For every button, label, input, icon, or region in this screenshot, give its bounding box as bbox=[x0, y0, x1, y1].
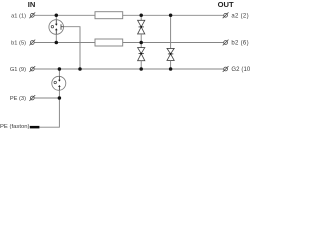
terminal b1 (5) bbox=[29, 40, 35, 46]
resistor R1 bbox=[95, 12, 123, 19]
junction PE/F2 bbox=[58, 96, 62, 100]
junction a-row/D3 bbox=[169, 14, 173, 17]
terminal a1 (1) bbox=[29, 12, 35, 18]
junction G/F1-side bbox=[78, 67, 82, 71]
svg-text:b2 (6): b2 (6) bbox=[231, 41, 248, 47]
junction b-row/D1-D2 bbox=[139, 41, 143, 45]
svg-text:G1 (9): G1 (9) bbox=[10, 67, 26, 73]
terminal b2 (6) bbox=[223, 40, 229, 46]
svg-text:PE (faston): PE (faston) bbox=[0, 124, 30, 130]
svg-text:a1 (1): a1 (1) bbox=[11, 13, 26, 19]
junction a-row/D1 bbox=[139, 14, 143, 17]
terminal PE (3) bbox=[29, 95, 35, 101]
terminal G2 (10) bbox=[223, 66, 229, 72]
wire G row bbox=[34, 68, 223, 70]
svg-text:OUT: OUT bbox=[218, 0, 234, 9]
terminal a2 (2) bbox=[223, 12, 229, 18]
resistor R2 bbox=[95, 39, 123, 46]
svg-text:G2 (10): G2 (10) bbox=[231, 67, 250, 73]
terminal G1 (9) bbox=[29, 66, 35, 72]
svg-text:PE (3): PE (3) bbox=[10, 96, 26, 102]
suppressor diode D3 (a-G) bbox=[167, 15, 174, 69]
PE faston tab bbox=[30, 126, 40, 128]
wire a1 row left bbox=[34, 14, 95, 16]
junction a1/F1 bbox=[55, 14, 59, 17]
suppressor diode D1 (a-b) bbox=[138, 15, 145, 42]
gas discharge tube F1 (3-electrode) bbox=[49, 15, 64, 42]
wire PE row bbox=[34, 97, 59, 99]
junction G-row/D2 bbox=[139, 67, 143, 71]
gas discharge tube F2 (2-electrode) bbox=[52, 69, 66, 98]
svg-text:a2 (2): a2 (2) bbox=[231, 13, 248, 19]
junction G-row/D3 bbox=[169, 67, 173, 71]
wire F1 side electrode to G row bbox=[64, 27, 81, 69]
wire b1 row left bbox=[34, 42, 95, 44]
junction G/F2 bbox=[58, 67, 62, 71]
suppressor diode D2 (b-G) bbox=[138, 43, 145, 70]
svg-text:IN: IN bbox=[28, 0, 36, 9]
junction b1/F1 bbox=[55, 41, 59, 45]
svg-text:b1 (5): b1 (5) bbox=[11, 41, 26, 47]
wire a1 row right bbox=[123, 14, 224, 16]
wire PE junction down to faston bbox=[39, 98, 59, 127]
wire b1 row right bbox=[123, 42, 224, 44]
